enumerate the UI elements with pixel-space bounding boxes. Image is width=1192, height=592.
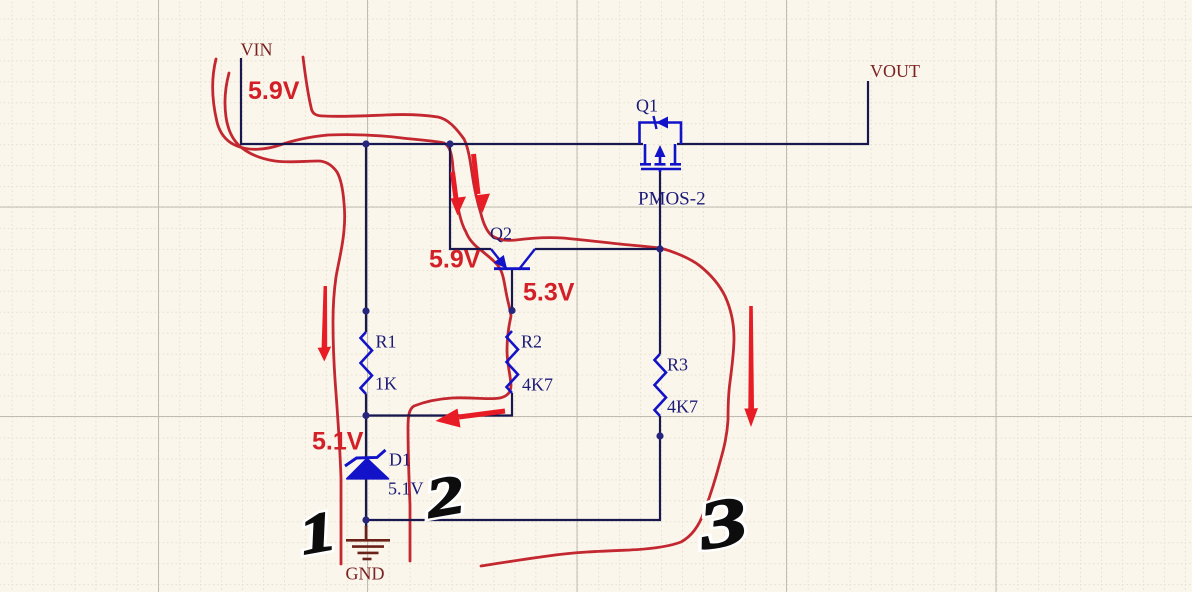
svg-text:GND: GND — [346, 564, 385, 584]
wire: gate node to R3 top — [659, 249, 661, 354]
svg-text:5.1V: 5.1V — [312, 428, 364, 456]
node junction dot rail/R1 — [362, 140, 369, 147]
node junction dot GND — [362, 516, 369, 523]
node junction dot R1 top pin — [362, 307, 369, 314]
transistor Q1 channel: bulk middle bar — [659, 157, 662, 163]
transistor Q1 bulk arrow — [655, 145, 666, 157]
red straight arrow down right side — [744, 306, 758, 427]
svg-text:5.1V: 5.1V — [388, 479, 424, 499]
wire: D1 cathode — [365, 416, 367, 458]
resistor R1 zigzag — [361, 332, 373, 394]
svg-text:R2: R2 — [521, 332, 542, 352]
transistor Q2 base bar — [494, 267, 530, 270]
svg-text:4K7: 4K7 — [667, 397, 698, 417]
node junction dot R3 bottom — [656, 432, 663, 439]
transistor Q2 emitter arrow — [494, 255, 507, 269]
svg-text:Q1: Q1 — [636, 96, 658, 116]
transistor Q1 gate plate — [641, 168, 681, 171]
big digit 1 — [295, 499, 341, 566]
wire: Q2 collector to gate node — [535, 248, 660, 250]
transistor Q1 channel: source stub — [640, 144, 681, 172]
big digit 3 — [692, 481, 753, 564]
wire: Q1 gate lead down — [659, 171, 661, 249]
svg-text:PMOS-2: PMOS-2 — [638, 189, 706, 210]
wire: D1 anode to GND node — [365, 479, 367, 527]
svg-text:1K: 1K — [375, 374, 397, 394]
red annotation curve loop 2 (inner left stroke down to GND) — [225, 73, 345, 564]
diode D1 zener bar — [345, 450, 386, 466]
red annotation curve loop 1 (outer left stroke) — [213, 59, 511, 561]
red straight arrow down near Q2 (right) — [474, 154, 479, 194]
wire: Q2 emitter drop from rail — [450, 144, 491, 249]
transistor Q1 channel: drain stub — [674, 144, 677, 163]
red annotation curve loop 3 (right big loop) — [303, 57, 734, 566]
svg-text:R1: R1 — [376, 332, 397, 352]
wire: R1 top pin stub — [365, 311, 367, 332]
ground symbol — [346, 526, 390, 559]
transistor Q2 PNP emitter diagonal — [491, 249, 506, 268]
wire: main top rail left of Q1 — [240, 143, 643, 145]
svg-text:4K7: 4K7 — [522, 375, 553, 395]
wire: R1 branch from rail — [365, 144, 367, 311]
node junction dot gate/collector/R3 — [656, 245, 663, 252]
node junction dot Q2 base / R2 — [508, 307, 515, 314]
diode D1 triangle — [347, 459, 389, 479]
svg-text:Q2: Q2 — [490, 224, 512, 244]
red straight arrow left at R2 bottom — [459, 411, 505, 417]
wire: bottom rail GND to R3 — [366, 436, 660, 520]
wire: R3 bottom pin — [659, 416, 661, 436]
transistor Q2 PNP collector diagonal — [520, 249, 535, 268]
transistor Q1 PMOS body diode loop — [640, 123, 682, 145]
svg-text:5.9V: 5.9V — [248, 77, 300, 105]
svg-text:R3: R3 — [667, 355, 688, 375]
svg-text:D1: D1 — [389, 450, 411, 470]
svg-text:5.3V: 5.3V — [523, 279, 575, 307]
red straight arrow down near Q2 (left) — [453, 172, 457, 199]
wire: node R1 to R2 bottom — [366, 393, 512, 416]
wire: main top rail right of Q1 to VOUT — [677, 81, 868, 144]
wire: VIN vertical — [240, 58, 242, 144]
resistor R2 zigzag — [507, 331, 519, 393]
red straight arrow down at R1 left — [318, 286, 332, 362]
node junction dot rail/Q2 — [446, 140, 453, 147]
resistor R3 zigzag — [655, 354, 667, 416]
big digit 2 — [420, 464, 468, 530]
wire: R1 bottom to node — [365, 394, 367, 416]
transistor Q1 body diode triangle and bar — [656, 117, 668, 129]
svg-text:VOUT: VOUT — [870, 61, 920, 81]
wire: Q2 base lead — [511, 269, 513, 311]
svg-text:5.9V: 5.9V — [429, 246, 481, 274]
node junction dot R1/R2/D1 — [362, 412, 369, 419]
svg-text:VIN: VIN — [241, 40, 273, 60]
